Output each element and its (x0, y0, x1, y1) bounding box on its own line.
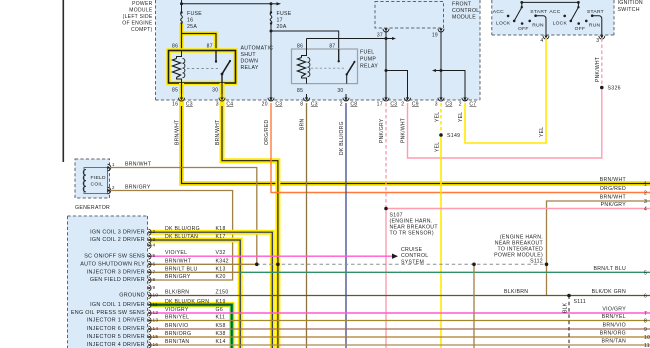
generator box (75, 159, 110, 198)
svg-text:POWER: POWER (132, 1, 152, 7)
svg-text:20A: 20A (277, 24, 287, 30)
svg-text:4: 4 (644, 207, 647, 213)
ignition pin 3 (596, 35, 605, 43)
svg-text:BRN/GRY: BRN/GRY (125, 185, 151, 191)
svg-text:DK BLU/ORG: DK BLU/ORG (165, 226, 200, 232)
generator pin 1 (107, 162, 115, 171)
svg-text:BRN: BRN (300, 118, 306, 130)
svg-text:3: 3 (153, 237, 156, 242)
relay ASD automatic shut down relay (169, 44, 236, 94)
svg-text:7: 7 (153, 269, 156, 274)
svg-text:AUTO SHUTDOWN RLY: AUTO SHUTDOWN RLY (80, 262, 145, 268)
svg-text:11: 11 (644, 343, 650, 348)
svg-text:RELAY: RELAY (360, 64, 378, 70)
wire YEL ignition feed (465, 39, 546, 144)
wire PNK/GRY FCM 37 to S107 (379, 103, 386, 348)
svg-text:BLK/BRN: BLK/BRN (504, 289, 528, 295)
svg-text:11: 11 (153, 302, 159, 307)
svg-text:85: 85 (297, 88, 303, 94)
svg-text:C3: C3 (445, 102, 452, 108)
svg-text:BRN/LT BLU: BRN/LT BLU (593, 266, 626, 272)
wire K19 DK BLU/DK GRN ign coil 1 driver (green highlight) (150, 299, 232, 348)
svg-text:IGN COIL 3 DRIVER: IGN COIL 3 DRIVER (90, 229, 145, 235)
svg-text:ORG/RED: ORG/RED (264, 119, 270, 145)
svg-text:BRN/WHT: BRN/WHT (165, 258, 192, 264)
svg-text:2: 2 (459, 102, 462, 108)
wire 10 K38 BRN/ORG injector 5 driver (150, 331, 650, 337)
svg-text:GROUND: GROUND (119, 293, 145, 299)
svg-text:15: 15 (153, 334, 159, 339)
svg-text:LOCK: LOCK (496, 21, 511, 27)
svg-text:3: 3 (435, 102, 438, 108)
svg-text:10: 10 (153, 293, 159, 298)
svg-text:16: 16 (187, 18, 193, 24)
svg-text:25A: 25A (187, 24, 197, 30)
svg-text:ORG/RED: ORG/RED (600, 186, 626, 192)
svg-text:DK BLU/TAN: DK BLU/TAN (165, 234, 198, 240)
PCM box (68, 216, 148, 348)
connector 8 C3 (300, 94, 318, 108)
svg-text:Z150: Z150 (216, 290, 229, 296)
svg-text:C7: C7 (469, 102, 476, 108)
ignition switch contacts right (549, 2, 604, 35)
svg-text:VIO/GRY: VIO/GRY (165, 307, 189, 313)
ignition switch bus (520, 1, 579, 4)
fuel pump relay label (360, 50, 378, 70)
svg-text:INJECTOR 5 DRIVER: INJECTOR 5 DRIVER (87, 334, 145, 340)
svg-text:BRN/YEL: BRN/YEL (165, 315, 189, 321)
svg-text:K14: K14 (216, 339, 226, 345)
svg-text:BRN/TAN: BRN/TAN (165, 339, 189, 345)
svg-text:17: 17 (377, 102, 383, 108)
svg-text:LOCK: LOCK (553, 21, 568, 27)
svg-text:C3: C3 (186, 102, 193, 108)
front control module box (375, 2, 444, 29)
generator label (75, 205, 110, 211)
svg-text:K19: K19 (216, 299, 226, 305)
svg-text:87: 87 (207, 44, 213, 50)
svg-text:7: 7 (644, 311, 647, 317)
wire V32 VIO/YEL to cruise control (150, 250, 398, 259)
svg-text:20: 20 (262, 102, 268, 108)
svg-text:SC ON/OFF SW SENS: SC ON/OFF SW SENS (84, 253, 145, 259)
svg-text:SHUT: SHUT (241, 52, 257, 58)
svg-text:GEN FIELD DRIVER: GEN FIELD DRIVER (90, 277, 145, 283)
svg-text:GENERATOR: GENERATOR (75, 205, 110, 211)
svg-text:PNK/WHT: PNK/WHT (595, 57, 601, 82)
svg-text:IGNITION: IGNITION (618, 0, 643, 6)
svg-text:CONTROL: CONTROL (452, 8, 479, 14)
connector 16 C3 (172, 94, 193, 108)
svg-text:FUSE: FUSE (277, 11, 292, 17)
svg-text:2: 2 (112, 185, 115, 190)
svg-text:C3: C3 (311, 102, 318, 108)
svg-text:C9: C9 (412, 102, 419, 108)
svg-text:19: 19 (432, 33, 438, 39)
wire K17 DK BLU/TAN ign coil 2 driver (highlighted) (150, 234, 240, 348)
wire 1 BRN/WHT ASD 85 to right edge (highlighted) (174, 83, 650, 184)
wire YEL label 2C7 (458, 112, 464, 122)
svg-text:12: 12 (153, 310, 159, 315)
wire PNK/WHT ignition to junction block (408, 39, 602, 159)
svg-text:ACC: ACC (549, 9, 560, 15)
svg-text:VIO/GRY: VIO/GRY (602, 307, 626, 313)
fuse F17 20A (270, 4, 292, 30)
fuse F16 25A (180, 11, 202, 30)
wire 2 BRN/WHT ASD 30 down to bottom (highlighted) (215, 83, 278, 348)
svg-text:OFF: OFF (575, 26, 586, 32)
connector 2 C8 (340, 94, 358, 108)
field coil box (83, 168, 107, 194)
svg-text:RELAY: RELAY (241, 65, 259, 71)
PCM pin function labels (71, 229, 145, 348)
connector 3 C3 (435, 94, 453, 108)
svg-text:C3: C3 (275, 102, 282, 108)
svg-text:9: 9 (644, 327, 647, 333)
svg-text:BRN/YEL: BRN/YEL (602, 314, 626, 320)
connector 2 C9 (401, 94, 419, 108)
svg-text:BRN/VIO: BRN/VIO (603, 323, 626, 329)
svg-text:BRN/WHT: BRN/WHT (125, 162, 152, 168)
wire BRN/GRY generator field to PCM (110, 185, 232, 281)
svg-text:87: 87 (329, 44, 335, 50)
svg-text:YEL: YEL (434, 142, 440, 152)
svg-text:85: 85 (172, 88, 178, 94)
svg-text:IGN COIL 1 DRIVER: IGN COIL 1 DRIVER (90, 302, 145, 308)
svg-text:86: 86 (172, 44, 178, 50)
svg-text:2: 2 (153, 229, 156, 234)
svg-text:RUN: RUN (532, 22, 544, 28)
wire ORG/RED fuse17 output to right edge (264, 103, 650, 193)
svg-text:SWITCH: SWITCH (618, 7, 640, 13)
svg-text:START: START (530, 9, 547, 15)
svg-text:3: 3 (216, 102, 219, 108)
svg-text:PUMP: PUMP (360, 57, 376, 63)
wire 9 K58 BRN/VIO injector 6 driver (150, 323, 650, 329)
splice S326 (600, 86, 621, 92)
svg-text:16: 16 (172, 102, 178, 108)
svg-text:VIO/YEL: VIO/YEL (165, 250, 187, 256)
wire PNK/WHT label (401, 118, 407, 143)
svg-text:4: 4 (153, 243, 156, 248)
svg-text:FUEL: FUEL (360, 50, 374, 56)
svg-text:MODULE: MODULE (129, 8, 153, 14)
svg-text:37: 37 (377, 33, 383, 39)
svg-text:30: 30 (337, 88, 343, 94)
svg-text:RUN: RUN (589, 22, 601, 28)
wire fuse17 to fuel pump relay pin 87 (270, 24, 339, 101)
wire 7 G6 VIO/GRY eng oil press sw sense (150, 307, 650, 313)
wire FCM pin 19 to connectors (432, 31, 465, 100)
svg-text:BRN/WHT: BRN/WHT (600, 177, 627, 183)
wire 3 BRN/WHT from S112 to right edge (547, 201, 650, 296)
frame border line (62, 0, 64, 162)
svg-text:YEL: YEL (458, 112, 464, 122)
svg-text:BRN/ORG: BRN/ORG (165, 331, 191, 337)
svg-text:OFF: OFF (518, 26, 529, 32)
connector 3 C4 (216, 94, 234, 108)
svg-text:K13: K13 (216, 266, 226, 272)
svg-text:BRN/WHT: BRN/WHT (174, 120, 180, 145)
wire 11 K14 BRN/TAN injector 4 driver (150, 339, 650, 345)
wire K342 BRN/WHT auto shutdown relay sense (150, 258, 547, 264)
svg-text:BRN/TAN: BRN/TAN (602, 339, 626, 345)
wire BRN fuel pump relay 85 (300, 103, 307, 348)
FCM pin 19 (432, 28, 444, 38)
svg-text:BRN/GRY: BRN/GRY (165, 274, 191, 280)
front control module label (452, 2, 479, 21)
svg-text:PNK/GRY: PNK/GRY (601, 202, 627, 208)
svg-text:K342: K342 (216, 258, 229, 264)
svg-text:C4: C4 (226, 102, 233, 108)
svg-text:YEL: YEL (539, 127, 545, 137)
svg-text:1: 1 (112, 162, 115, 167)
svg-text:3: 3 (644, 199, 647, 205)
ignition pin 4 (540, 35, 549, 43)
svg-text:S149: S149 (447, 133, 460, 139)
svg-text:2: 2 (401, 102, 404, 108)
svg-text:6: 6 (153, 261, 156, 266)
svg-text:S326: S326 (608, 86, 621, 92)
svg-text:MODULE: MODULE (452, 15, 476, 21)
splice node K342-generator (255, 263, 259, 267)
connector 2 C7 (459, 94, 477, 108)
svg-text:4: 4 (540, 38, 543, 44)
svg-text:K11: K11 (216, 315, 226, 321)
cruise control system label (401, 247, 428, 265)
svg-text:BRN/VIO: BRN/VIO (165, 323, 188, 329)
svg-text:TO TR SENSOR): TO TR SENSOR) (390, 231, 434, 237)
svg-text:5: 5 (644, 270, 647, 276)
svg-text:DK BLU/DK GRN: DK BLU/DK GRN (165, 299, 209, 305)
svg-text:S111: S111 (574, 299, 587, 305)
PCM pin brackets (148, 229, 158, 348)
connector 17 C3 (377, 94, 398, 108)
ignition switch label (618, 0, 643, 13)
power module label (122, 1, 153, 33)
svg-text:FRONT: FRONT (452, 2, 472, 8)
svg-text:CONTROL: CONTROL (401, 253, 428, 259)
svg-text:INJECTOR 4 DRIVER: INJECTOR 4 DRIVER (87, 342, 145, 348)
svg-text:BLK: BLK (563, 302, 569, 313)
svg-text:K20: K20 (216, 274, 226, 280)
svg-text:1: 1 (644, 182, 647, 188)
wire top bus (180, 0, 281, 13)
svg-text:ENG OIL PRESS SW SENS: ENG OIL PRESS SW SENS (71, 310, 145, 316)
svg-text:BLK/DK GRN: BLK/DK GRN (592, 289, 626, 295)
svg-text:DOWN: DOWN (241, 59, 259, 65)
svg-text:BRN/WHT: BRN/WHT (215, 120, 221, 145)
svg-text:COIL: COIL (91, 182, 104, 188)
generator pin 2 (107, 185, 115, 194)
svg-text:(LEFT SIDE: (LEFT SIDE (123, 14, 153, 20)
splice node K342-ASD (276, 263, 280, 267)
svg-text:BRN/LT BLU: BRN/LT BLU (165, 266, 198, 272)
svg-text:3: 3 (596, 38, 599, 44)
connector 20 C3 (262, 94, 283, 108)
svg-text:IGN COIL 2 DRIVER: IGN COIL 2 DRIVER (90, 237, 145, 243)
svg-text:16: 16 (153, 342, 159, 347)
svg-text:9: 9 (153, 285, 156, 290)
svg-text:DK BLU/ORG: DK BLU/ORG (339, 121, 345, 155)
ASD relay label (241, 46, 274, 72)
svg-text:6: 6 (644, 294, 647, 300)
wire 6 Z150 BLK/BRN ground (150, 289, 650, 296)
svg-text:13: 13 (153, 318, 159, 323)
svg-text:C8: C8 (350, 102, 357, 108)
svg-text:K38: K38 (216, 331, 226, 337)
svg-text:8: 8 (644, 319, 647, 325)
ignition switch contacts left (493, 2, 548, 35)
svg-text:BRN/ORG: BRN/ORG (600, 331, 626, 337)
svg-text:INJECTOR 3 DRIVER: INJECTOR 3 DRIVER (87, 270, 145, 276)
wire BRN/WHT generator field to K342 splice (110, 162, 256, 265)
svg-text:86: 86 (297, 44, 303, 50)
svg-text:8: 8 (300, 102, 303, 108)
relay fuel pump relay (292, 44, 358, 95)
wire DK BLU/ORG fuel pump feed (339, 103, 346, 348)
svg-text:S112: S112 (530, 259, 543, 265)
wire 8 K11 BRN/YEL injector 1 driver (150, 315, 650, 321)
svg-text:ACC: ACC (493, 9, 504, 15)
svg-text:G6: G6 (216, 307, 224, 313)
wire 4 PNK/GRY from S107 to right edge (386, 208, 650, 210)
svg-text:START: START (587, 9, 604, 15)
svg-text:K17: K17 (216, 234, 226, 240)
svg-text:FIELD: FIELD (91, 175, 107, 181)
splice S112 (472, 235, 548, 267)
wire 5 K13 BRN/LT BLU injector 3 driver (150, 266, 650, 272)
integrated power module box (156, 0, 481, 100)
svg-text:PNK/GRY: PNK/GRY (379, 118, 385, 143)
svg-text:2: 2 (644, 191, 647, 197)
svg-text:17: 17 (277, 18, 283, 24)
svg-text:PNK/WHT: PNK/WHT (401, 118, 407, 143)
splice S107 (384, 207, 438, 237)
svg-text:BRN/WHT: BRN/WHT (600, 195, 627, 201)
svg-text:CRUISE: CRUISE (401, 247, 423, 253)
svg-text:OF ENGINE: OF ENGINE (122, 21, 153, 27)
splice S149 (439, 133, 460, 139)
svg-text:8: 8 (153, 277, 156, 282)
wire K20 BRN/GRY label (165, 274, 226, 280)
svg-text:FUSE: FUSE (187, 11, 202, 17)
wire S112 branch to bottom (473, 264, 475, 348)
svg-text:K58: K58 (216, 323, 226, 329)
svg-text:INJECTOR 6 DRIVER: INJECTOR 6 DRIVER (87, 326, 145, 332)
svg-text:10: 10 (644, 335, 650, 341)
svg-text:K18: K18 (216, 226, 226, 232)
svg-text:AUTOMATIC: AUTOMATIC (241, 46, 274, 52)
svg-text:C3: C3 (390, 102, 397, 108)
svg-text:V32: V32 (216, 250, 226, 256)
svg-text:5: 5 (153, 253, 156, 258)
svg-text:COMPT): COMPT) (131, 27, 153, 33)
wire fused B+ to ASD relay (highlighted) (182, 24, 217, 51)
svg-text:2: 2 (340, 102, 343, 108)
ignition switch box (492, 0, 614, 35)
right edge wire labels (592, 177, 650, 348)
wire YEL FCM 19 through S149 (434, 103, 441, 348)
svg-text:INJECTOR 1 DRIVER: INJECTOR 1 DRIVER (87, 318, 145, 324)
splice S111 (563, 294, 587, 348)
wire K18 DK BLU/ORG ign coil 3 driver (highlighted) (150, 226, 272, 348)
svg-text:30: 30 (212, 88, 218, 94)
svg-text:YEL: YEL (434, 112, 440, 122)
FCM pin 37 (377, 28, 389, 38)
svg-text:14: 14 (153, 326, 159, 331)
svg-text:BLK/BRN: BLK/BRN (165, 290, 189, 296)
wire FCM pin 37 to fuel pump relay 86 (307, 31, 408, 100)
